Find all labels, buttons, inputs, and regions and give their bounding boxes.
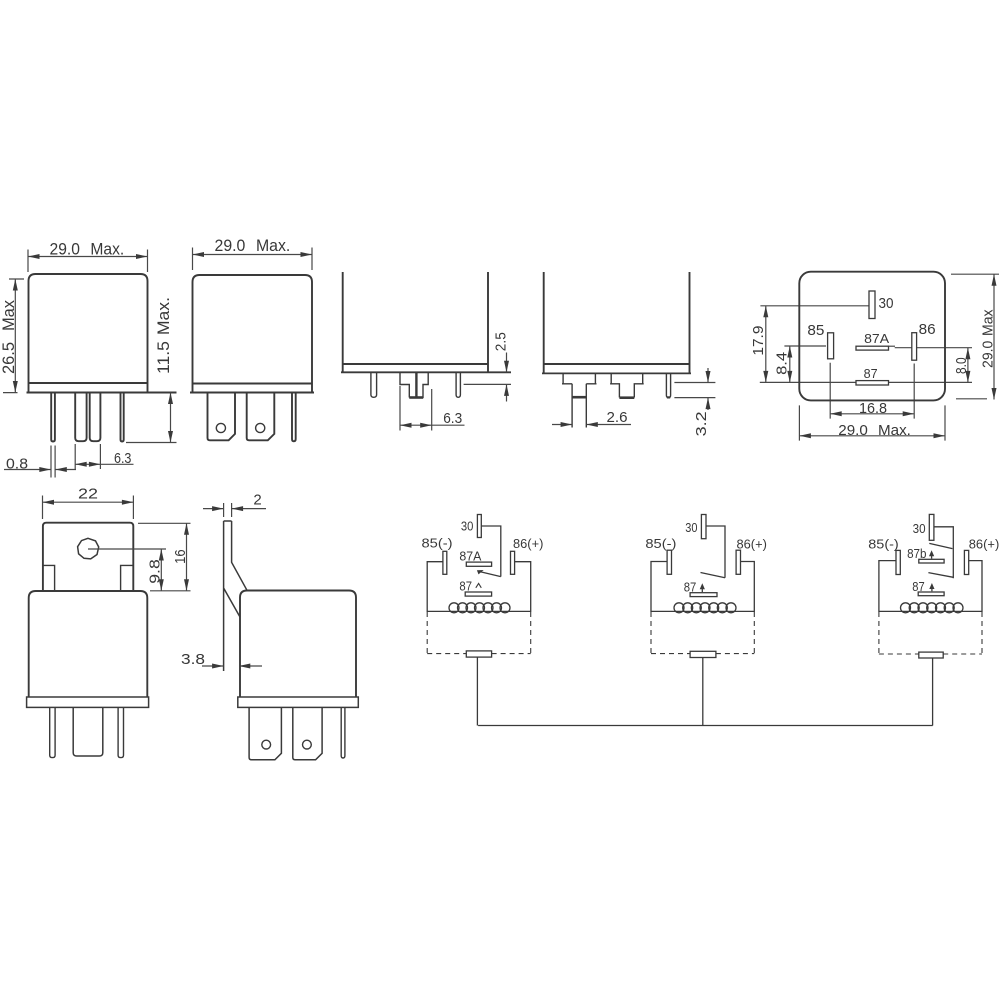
- wire 86 to coil S1: [515, 562, 531, 612]
- dim 8.0: extension line: [895, 347, 972, 349]
- dim 29.0 Max top: dimension line: [28, 256, 148, 258]
- dim 29.0 Max right: extension lines: [951, 274, 999, 399]
- body base line v4: [542, 372, 691, 374]
- dim 6.3 v3: dimension line: [400, 424, 465, 426]
- body flange line v2: [193, 383, 313, 385]
- shared bottom extension line 17.9/8.4/8.0: [760, 381, 972, 383]
- bus wire: [478, 725, 933, 727]
- dim 2.5: dimension line: [506, 353, 508, 402]
- relay body view6: [240, 591, 356, 698]
- center blade with slot v3: [400, 372, 428, 397]
- svg-text:3.8: 3.8: [181, 651, 205, 668]
- arrows view7: [763, 306, 768, 318]
- svg-text:8.4: 8.4: [774, 352, 791, 375]
- body profile sides v4: [544, 272, 690, 373]
- bracket side profile: [224, 521, 247, 671]
- base flange view5: [27, 697, 149, 707]
- dim 3.8: dimension line: [202, 665, 262, 667]
- arrows view4: [561, 422, 573, 427]
- arrow 87 S3: [931, 585, 933, 592]
- body flange line: [29, 382, 148, 384]
- svg-text:11.5 Max.: 11.5 Max.: [155, 297, 173, 374]
- svg-text:29.0 Max: 29.0 Max: [980, 309, 997, 368]
- arrows view5: [43, 500, 55, 505]
- dim 8.0: dimension line: [967, 348, 969, 383]
- dim 8.4: extension line: [784, 345, 826, 347]
- dim 26.5 Max left: dimension line: [14, 279, 16, 393]
- svg-text:85(-): 85(-): [422, 536, 453, 551]
- wire 85 to coil S2: [651, 562, 667, 613]
- connector block S2: [690, 651, 716, 657]
- svg-text:6.3: 6.3: [443, 410, 462, 427]
- dim 29.0 Max top: extension lines: [28, 250, 148, 273]
- dim 17.9: extension line: [760, 305, 869, 307]
- dim 8.4: dimension line: [789, 346, 791, 382]
- underline 87A: [889, 345, 896, 347]
- switch armature upper S3: [929, 543, 952, 548]
- mounting bracket plate: [43, 523, 133, 591]
- svg-text:85(-): 85(-): [868, 537, 899, 552]
- thin pin v6: [341, 707, 345, 758]
- svg-text:86: 86: [919, 321, 936, 338]
- svg-text:86(+): 86(+): [737, 536, 767, 551]
- arrows view1: [28, 254, 40, 259]
- contact 87b S3: [919, 559, 944, 563]
- blade terminal right with hole: [247, 393, 275, 441]
- hole centerline: [88, 548, 166, 550]
- svg-text:6.3: 6.3: [114, 450, 132, 467]
- svg-text:16: 16: [172, 549, 189, 564]
- blade terminal left with hole: [208, 393, 236, 441]
- thin pin right v5: [118, 707, 123, 757]
- svg-text:30: 30: [913, 521, 926, 536]
- relay body front view: [29, 274, 148, 393]
- dim 22: extension lines: [43, 496, 134, 520]
- dim 16.8: extension lines: [830, 363, 914, 419]
- wire 30 to switch S2: [706, 526, 725, 578]
- svg-text:87A: 87A: [459, 549, 481, 564]
- stepped pin left v4: [562, 373, 597, 427]
- dim 9.8: dimension line: [160, 549, 162, 591]
- svg-text:2: 2: [253, 492, 261, 509]
- svg-text:87: 87: [684, 580, 697, 595]
- relay body side view: [193, 275, 313, 393]
- terminal 85 S2: [667, 550, 671, 574]
- pin slot 86: [912, 333, 917, 361]
- contact 87 S1: [465, 592, 491, 596]
- small pin right v3: [456, 372, 460, 397]
- dim 16: dimension line: [186, 523, 188, 591]
- wire 86 to coil S2: [741, 562, 755, 613]
- connector block S3: [919, 652, 943, 658]
- svg-text:30: 30: [461, 519, 474, 534]
- svg-text:86(+): 86(+): [969, 537, 1000, 552]
- dim 16.8: dimension line: [830, 413, 914, 415]
- dim 17.9: dimension line: [765, 306, 767, 383]
- svg-text:16.8: 16.8: [859, 400, 887, 417]
- svg-text:87: 87: [864, 366, 878, 381]
- svg-text:85(-): 85(-): [645, 536, 676, 551]
- dim 6.3: dimension line: [75, 463, 133, 465]
- coil S1: [427, 610, 531, 612]
- wire 30 to switch S3: [934, 527, 953, 578]
- svg-text:29.0 Max.: 29.0 Max.: [215, 237, 291, 255]
- dim 29.0 Max v2: dimension line: [193, 254, 313, 256]
- switch armature S1: [478, 571, 501, 577]
- arrow 87b S3: [931, 552, 933, 559]
- wire 30 to switch S1: [481, 526, 501, 577]
- terminal 30 S3: [929, 514, 934, 540]
- body profile sides v3: [343, 272, 488, 372]
- wide blade pin v5: [73, 707, 103, 756]
- wire to bus S1: [476, 657, 478, 725]
- svg-text:29.0 Max.: 29.0 Max.: [50, 240, 125, 258]
- coil S3: [879, 610, 982, 612]
- body base line: [27, 392, 177, 394]
- thin pin right v4: [666, 373, 670, 397]
- svg-text:22: 22: [78, 486, 98, 503]
- svg-text:2.5: 2.5: [493, 332, 510, 351]
- blade pin left v6 with hole: [249, 707, 281, 759]
- connector block S1: [466, 651, 491, 657]
- body flange line v3: [343, 363, 488, 365]
- svg-text:17.9: 17.9: [750, 326, 767, 356]
- dim 29.0 Max right: dimension line: [993, 274, 995, 399]
- svg-text:85: 85: [807, 322, 824, 339]
- arrows view6: [212, 506, 224, 511]
- arrow tip on armature S1: [477, 570, 484, 574]
- svg-text:26.5 Max: 26.5 Max: [0, 299, 18, 374]
- dim 6.3 v3: extension lines: [400, 386, 432, 431]
- svg-text:86(+): 86(+): [513, 536, 543, 551]
- svg-text:2.6: 2.6: [607, 409, 628, 426]
- svg-text:0.8: 0.8: [6, 455, 28, 472]
- bracket mounting hole: [78, 538, 99, 559]
- switch armature S2: [701, 573, 726, 578]
- body flange line v4: [544, 363, 690, 365]
- pin blade mid A: [75, 393, 86, 442]
- body base line v3: [341, 371, 511, 373]
- terminal 86 S1: [511, 551, 515, 574]
- small pin left v3: [371, 372, 377, 397]
- svg-text:87: 87: [459, 578, 472, 593]
- dim 29.0 Max bottom: extension lines: [799, 405, 945, 440]
- thin pin right v2: [292, 393, 296, 442]
- caret above 87 S1: [476, 583, 482, 587]
- relay bottom view outline: [799, 272, 945, 401]
- dim 0.8: extension lines: [51, 446, 55, 478]
- common bus wire linking the three schematics: [478, 725, 933, 727]
- dim 2.6: dimension line: [552, 424, 631, 426]
- svg-text:87A: 87A: [864, 331, 889, 346]
- bracket leg notches: [43, 565, 133, 591]
- wire 85 to coil S1: [427, 562, 443, 612]
- svg-text:9.8: 9.8: [147, 559, 164, 584]
- pin blade narrow right: [121, 393, 124, 442]
- svg-text:3.2: 3.2: [693, 411, 710, 436]
- terminal 86 S2: [736, 550, 740, 574]
- dim 2.5: extension line: [464, 383, 511, 385]
- arrows view2: [193, 252, 205, 257]
- dim 3.2: dimension line: [707, 368, 709, 410]
- coil S2: [651, 610, 754, 612]
- svg-text:87: 87: [912, 579, 924, 594]
- svg-text:87b: 87b: [907, 546, 926, 561]
- dim 3.2: extension lines: [674, 383, 715, 398]
- pin slot 87: [856, 381, 889, 385]
- contact 87 S2: [690, 593, 717, 597]
- dim 11.5 Max: dimension line: [170, 393, 172, 443]
- wire 85 to coil S3: [879, 561, 896, 612]
- svg-text:8.0: 8.0: [953, 357, 970, 374]
- terminal 30 S2: [701, 515, 706, 539]
- terminal 30 S1: [477, 515, 481, 538]
- dim 29.0 Max bottom: dimension line: [799, 435, 945, 437]
- contact 87 S3: [918, 592, 944, 596]
- dim 22: dimension line: [43, 501, 134, 503]
- case dashed S2: [651, 612, 754, 654]
- blade pin right v6 with hole: [293, 707, 322, 759]
- terminal 85 S1: [443, 551, 447, 574]
- body base line v2: [190, 392, 314, 394]
- wire to bus S2: [702, 658, 704, 726]
- pin slot 30: [869, 291, 875, 319]
- thin pin left v5: [50, 707, 55, 757]
- switch armature lower S3: [928, 573, 953, 578]
- pin blade narrow left: [51, 393, 55, 442]
- dim 2: dimension line: [203, 508, 266, 510]
- dim 6.3: extension lines: [75, 444, 100, 469]
- arrows view3: [504, 361, 509, 373]
- svg-text:30: 30: [685, 520, 697, 535]
- wire 86 to coil S3: [969, 561, 982, 612]
- case dashed S1: [427, 612, 531, 654]
- wire to bus S3: [932, 658, 934, 726]
- terminal 86 S3: [964, 550, 968, 574]
- contact 87A S1: [466, 562, 491, 566]
- pin slot 87A: [856, 346, 889, 350]
- relay body view5: [29, 591, 148, 697]
- dim 29.0 Max v2: extension lines: [193, 248, 313, 271]
- dim 26.5 Max left: extension lines: [3, 279, 24, 393]
- dim 16: extension line: [138, 523, 191, 591]
- svg-text:29.0 Max.: 29.0 Max.: [838, 422, 911, 439]
- pin slot 85: [828, 333, 834, 359]
- svg-text:30: 30: [879, 295, 894, 312]
- dim 2: extension stubs: [224, 503, 232, 517]
- case dashed S3: [879, 612, 982, 654]
- dim 11.5 Max: extension line: [126, 442, 177, 444]
- base flange view6: [238, 697, 358, 707]
- terminal 85 S3: [896, 550, 900, 574]
- pin blade mid B: [90, 393, 101, 442]
- stepped pin middle v4: [610, 373, 644, 397]
- dim 0.8: dimension line: [4, 469, 76, 471]
- arrow 87 S2: [701, 586, 703, 593]
